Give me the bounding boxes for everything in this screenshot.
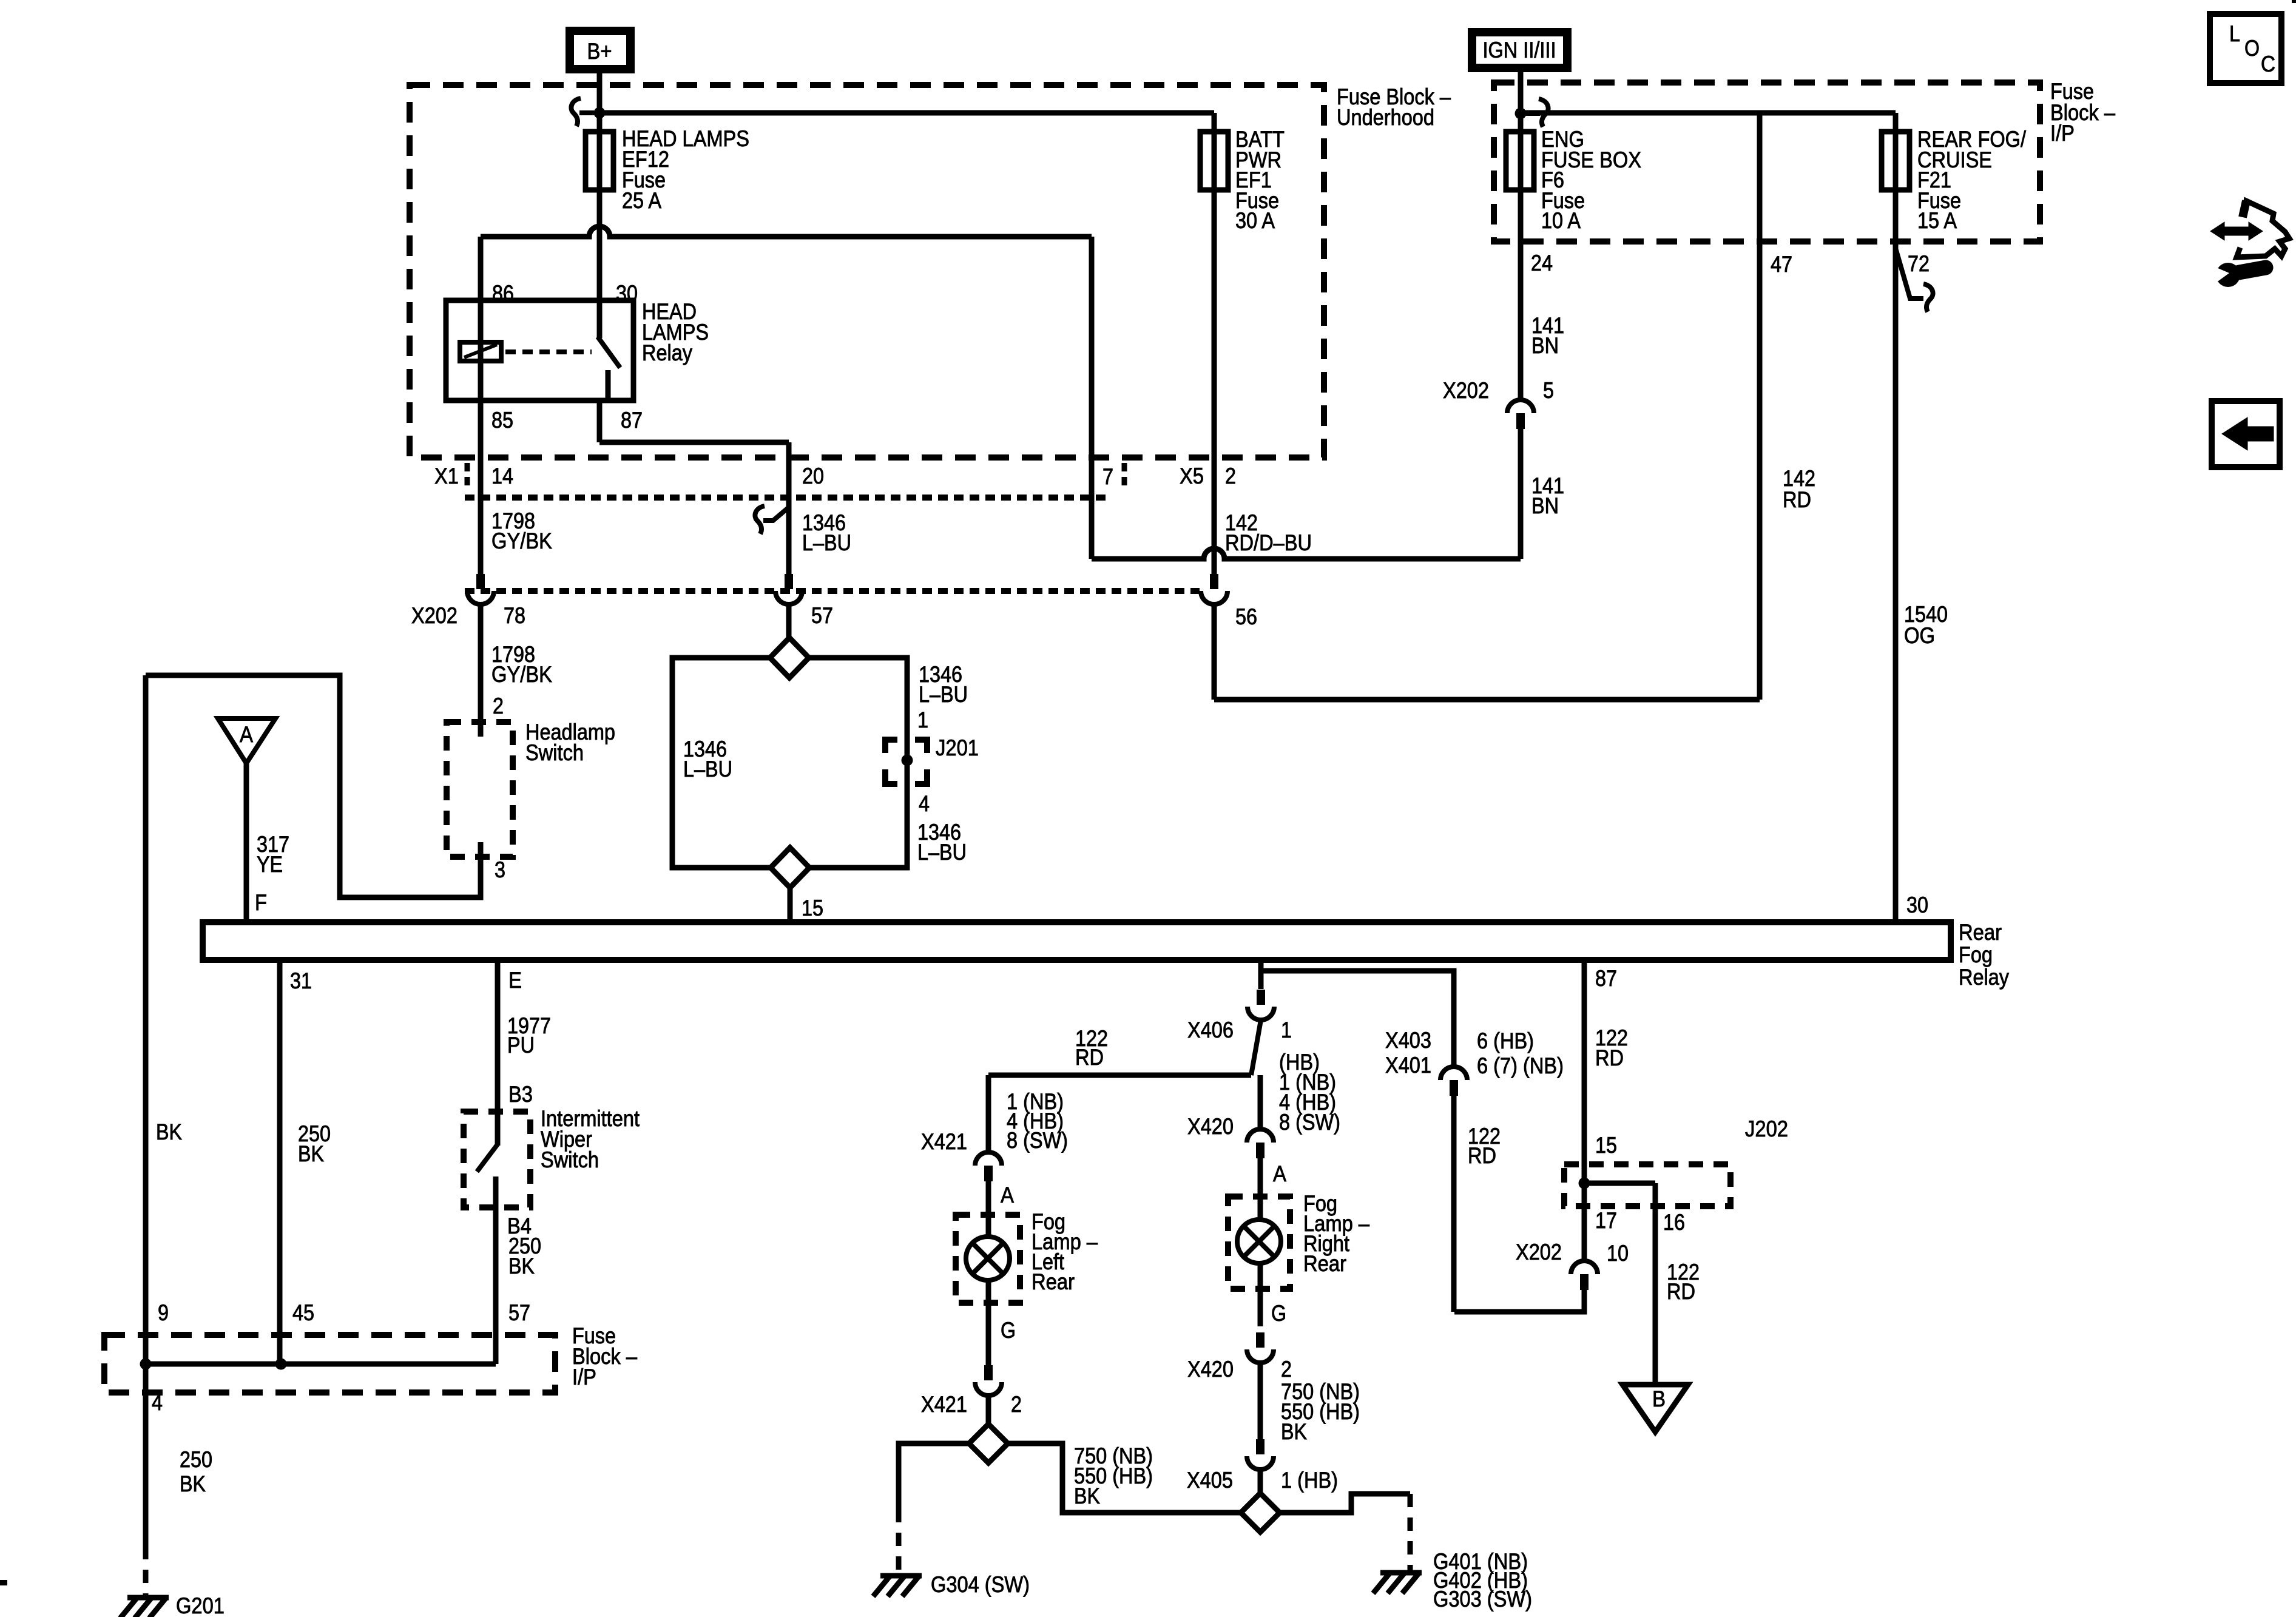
connector X421 pin 1 (975, 1152, 1002, 1166)
fuse F21 (REAR FOG/CRUISE 15A) (1882, 132, 1909, 190)
svg-text:X421: X421 (921, 1129, 967, 1154)
wire A to rear fog relay pin F (244, 763, 249, 922)
svg-text:B: B (1652, 1386, 1666, 1411)
wire J202 internal (1584, 1181, 1655, 1186)
junction J202 dashed box (1564, 1164, 1730, 1206)
svg-text:20: 20 (802, 464, 824, 488)
wire into left fog lamp (986, 1181, 991, 1238)
wire wiper switch lower (493, 1176, 499, 1364)
wire X202-10 to corner (1454, 1290, 1584, 1312)
svg-text:86: 86 (492, 281, 514, 306)
svg-text:PU: PU (507, 1033, 535, 1058)
svg-text:8 (SW): 8 (SW) (1279, 1110, 1340, 1135)
wire into right fog lamp (1258, 1158, 1263, 1220)
svg-text:Switch: Switch (525, 740, 584, 765)
dashed drop to G401 (1408, 1494, 1413, 1570)
connector X1 separator (465, 463, 470, 489)
wire right lamp column upper (1258, 1075, 1263, 1129)
svg-text:87: 87 (621, 408, 643, 433)
splice diamond lower (771, 848, 809, 888)
relay HEAD LAMPS box (446, 300, 633, 400)
connector X420 pin 2 (1256, 1332, 1264, 1348)
relay coil-switch dashed link (505, 349, 592, 354)
fuse block I/P dashed box (bottom left) (104, 1335, 555, 1393)
wire F21 top drop (1760, 110, 1896, 116)
svg-text:L–BU: L–BU (917, 840, 967, 865)
svg-text:YE: YE (257, 852, 283, 877)
wire 122 RD horizontal (988, 1073, 1251, 1078)
wire 141 BN horizontal with hop over pin30 wire (481, 226, 1092, 237)
svg-text:31: 31 (290, 968, 312, 993)
wire pin 87 horizontal to x1300 (599, 440, 789, 445)
service icon stub (2243, 201, 2246, 217)
svg-text:6 (7) (NB): 6 (7) (NB) (1477, 1053, 1564, 1078)
wire 250 BK to G201 (143, 1364, 149, 1546)
loop right branch (809, 658, 907, 868)
connector X421 pin 2 (984, 1365, 993, 1380)
connector X403/X401 (1440, 1067, 1467, 1080)
connector X5 separator (1122, 463, 1127, 489)
svg-text:OG: OG (1904, 623, 1935, 648)
service icon head outline (2237, 201, 2289, 257)
wire F6 to X202-5 (1518, 190, 1524, 400)
svg-text:L: L (2229, 21, 2240, 46)
svg-text:X403: X403 (1385, 1028, 1431, 1053)
svg-text:BK: BK (1281, 1419, 1307, 1444)
svg-text:57: 57 (811, 603, 833, 628)
wire 141 BN vertical x1799 (1089, 237, 1095, 559)
svg-text:1: 1 (1281, 1018, 1292, 1042)
wire bus stub to X406 (1258, 960, 1264, 989)
svg-text:J202: J202 (1745, 1116, 1788, 1141)
wire 1540 OG (F21 to relay pin 30) (1893, 190, 1899, 922)
bus junction line in I/P block (146, 1362, 496, 1367)
connector X202 pin 78 (476, 574, 485, 589)
svg-text:2: 2 (1011, 1392, 1022, 1417)
wire EF12 to relay pin 30 (597, 190, 603, 300)
svg-text:4: 4 (919, 791, 930, 816)
svg-text:BN: BN (1531, 493, 1559, 518)
junction J201 brackets (885, 740, 927, 784)
svg-text:87: 87 (1595, 966, 1617, 991)
fog lamp right dashed box (1228, 1197, 1290, 1289)
connector X202 pin 5 (1507, 400, 1534, 413)
ground G304 (873, 1576, 922, 1596)
svg-text:7: 7 (1102, 464, 1113, 489)
junction dot J201 (902, 755, 913, 766)
svg-text:X405: X405 (1187, 1468, 1233, 1493)
svg-text:A: A (240, 722, 253, 747)
svg-text:O: O (2244, 36, 2260, 61)
svg-text:Fog: Fog (1959, 942, 1993, 967)
svg-text:I/P: I/P (572, 1365, 596, 1389)
connector X405 pin 1 (1256, 1439, 1264, 1454)
hook below pin 72 (1896, 248, 1923, 299)
svg-text:B3: B3 (508, 1082, 533, 1107)
svg-text:G303 (SW): G303 (SW) (1433, 1587, 1532, 1612)
ground G401 (1373, 1573, 1422, 1593)
wire 141 BN riser to X202-5 (1518, 429, 1524, 559)
svg-text:GY/BK: GY/BK (491, 528, 552, 553)
headlamp switch stubs (478, 722, 484, 737)
wire X405 to splice (1258, 1470, 1263, 1493)
svg-text:J201: J201 (936, 735, 979, 760)
svg-text:72: 72 (1908, 251, 1930, 276)
svg-text:15 A: 15 A (1917, 208, 1957, 233)
svg-text:BN: BN (1531, 333, 1559, 358)
svg-text:2: 2 (493, 694, 504, 718)
page artifact mark bottom left (0, 1580, 7, 1585)
svg-text:5: 5 (1543, 378, 1554, 403)
wire below X202-56 (1212, 604, 1217, 700)
wire X420-2 to X405 (1258, 1363, 1263, 1440)
wire 142 RD/D-BU bottom horizontal (1214, 697, 1760, 703)
fog lamp left bulb (966, 1237, 1010, 1280)
junction dot J202 (1579, 1178, 1590, 1189)
connector X1 face (dotted row) (465, 495, 1110, 501)
splice diamond upper (770, 638, 809, 678)
back arrow box (2212, 401, 2280, 467)
svg-text:A: A (1273, 1161, 1286, 1186)
fuse block underhood dashed box (410, 85, 1324, 457)
svg-text:30 A: 30 A (1235, 208, 1275, 233)
svg-text:G201: G201 (176, 1593, 225, 1617)
svg-text:BK: BK (180, 1471, 206, 1496)
svg-text:G: G (1271, 1301, 1286, 1326)
svg-text:9: 9 (158, 1300, 169, 1325)
svg-text:X420: X420 (1187, 1114, 1234, 1139)
wire relay pin 85 down (478, 400, 484, 575)
connector X202 face (dotted row) (465, 588, 1200, 594)
svg-text:A: A (1001, 1183, 1014, 1207)
svg-text:X202: X202 (411, 603, 458, 628)
svg-text:8 (SW): 8 (SW) (1007, 1128, 1068, 1153)
svg-text:Relay: Relay (642, 340, 692, 365)
svg-text:Rear: Rear (1959, 920, 2002, 945)
wire B+ to junction (597, 73, 603, 113)
wire splice to relay pin 15 (788, 888, 793, 922)
svg-text:25 A: 25 A (622, 188, 661, 213)
svg-text:RD/D–BU: RD/D–BU (1225, 530, 1312, 555)
wire splice to G304 drop (899, 1443, 969, 1509)
svg-text:B+: B+ (587, 39, 612, 64)
wire pin 17 down (1582, 1183, 1587, 1261)
svg-text:24: 24 (1531, 251, 1553, 275)
svg-text:30: 30 (1906, 893, 1928, 917)
svg-text:G: G (1001, 1318, 1016, 1343)
svg-text:BK: BK (1074, 1484, 1100, 1508)
page artifact mark top right (2292, 0, 2296, 3)
svg-text:GY/BK: GY/BK (491, 662, 552, 687)
svg-text:X202: X202 (1516, 1240, 1562, 1264)
svg-text:RD: RD (1783, 487, 1811, 512)
fuse EF12 (HEAD LAMPS 25A) (586, 132, 613, 190)
connector X420 pin A (1247, 1129, 1274, 1143)
wire 141 BN horizontal lower with hop over X5 wire (1092, 549, 1521, 559)
wire pin 16 down to B (1653, 1183, 1658, 1385)
svg-text:45: 45 (292, 1300, 314, 1325)
svg-text:C: C (2261, 52, 2275, 76)
svg-text:I/P: I/P (2050, 121, 2075, 146)
fuse F6 (ENG FUSE BOX 10A) (1506, 132, 1534, 190)
svg-text:Rear: Rear (1303, 1251, 1346, 1276)
service icon double arrow (2210, 222, 2263, 240)
svg-text:17: 17 (1595, 1208, 1617, 1233)
svg-text:X1: X1 (434, 464, 459, 488)
svg-text:78: 78 (504, 603, 525, 628)
splice diamond left lamp (969, 1424, 1008, 1463)
loop left branch (672, 658, 771, 868)
fog lamp left dashed box (956, 1215, 1020, 1303)
junction dot at IGN feed (1515, 108, 1527, 120)
relay coil (478, 300, 484, 400)
wire 142 RD riser x2900 (1757, 113, 1763, 700)
connector X202 pin 57 (785, 574, 793, 589)
svg-text:RD: RD (1667, 1279, 1695, 1304)
hook below pin 20 (763, 507, 789, 521)
fog lamp right bulb (1237, 1220, 1281, 1263)
wire top link X406-X403 (1261, 971, 1454, 1067)
power feed B+ box (570, 31, 630, 69)
wire B+ junction to EF1 drop (599, 110, 1214, 116)
hook at IGN junction (1524, 111, 1540, 116)
svg-text:30: 30 (616, 281, 638, 306)
connector X202 pin 56 (1210, 574, 1218, 589)
diagonal X406 to 122RD line (1251, 1020, 1261, 1075)
wire below right lamp (1258, 1263, 1263, 1326)
fuse EF1 (BATT PWR 30A) (1200, 132, 1228, 190)
svg-text:BK: BK (156, 1119, 182, 1144)
svg-text:RD: RD (1075, 1045, 1104, 1070)
svg-text:Switch: Switch (541, 1147, 599, 1172)
wire EF12 feed (597, 113, 603, 132)
connector X406 pin 1 (1257, 990, 1265, 1005)
wire headlamp switch pin3 path (146, 675, 481, 897)
relay rear fog box (203, 922, 1951, 960)
svg-text:X406: X406 (1187, 1018, 1234, 1042)
svg-text:X202: X202 (1443, 378, 1489, 403)
svg-text:L–BU: L–BU (683, 757, 732, 781)
dashed drop to G304 (896, 1509, 902, 1573)
svg-text:Underhood: Underhood (1337, 105, 1434, 130)
svg-text:X420: X420 (1187, 1357, 1234, 1382)
svg-text:3: 3 (495, 857, 505, 882)
svg-text:6 (HB): 6 (HB) (1477, 1028, 1534, 1053)
svg-text:L–BU: L–BU (919, 682, 968, 707)
wire X5-2 down to X202-56 (1212, 190, 1217, 575)
svg-text:BK: BK (508, 1254, 535, 1278)
wire below left lamp (986, 1280, 991, 1365)
svg-text:RD: RD (1468, 1143, 1496, 1168)
svg-text:16: 16 (1663, 1210, 1685, 1235)
svg-text:14: 14 (491, 464, 513, 488)
svg-text:10 A: 10 A (1541, 208, 1581, 233)
svg-text:10: 10 (1607, 1241, 1629, 1266)
dashed drop to G201 (143, 1546, 149, 1596)
svg-text:BK: BK (298, 1141, 324, 1166)
power feed IGN II/III box (1472, 32, 1567, 68)
svg-text:Relay: Relay (1959, 965, 2009, 990)
wire BK left column (143, 675, 149, 1364)
wire X403 down (1451, 1096, 1457, 1312)
svg-text:F: F (255, 890, 267, 915)
loc box (2210, 14, 2281, 83)
service icon wrench (2216, 263, 2240, 287)
wire X202-57 to splice diamond (786, 604, 792, 638)
connector X202 pin 10 (1571, 1261, 1598, 1274)
wire X421-2 to splice (986, 1396, 991, 1425)
relay switch blade (597, 300, 603, 338)
wire to relay pin 86 (478, 237, 484, 300)
svg-text:85: 85 (491, 408, 513, 433)
svg-text:G304 (SW): G304 (SW) (931, 1572, 1030, 1597)
svg-text:IGN II/III: IGN II/III (1483, 38, 1556, 62)
junction dot I/P a (140, 1359, 152, 1370)
wire splice to X405 splice (1008, 1443, 1241, 1513)
wire pin 87 rf down (1582, 960, 1587, 1183)
svg-text:1 (HB): 1 (HB) (1281, 1468, 1338, 1493)
svg-text:4: 4 (152, 1390, 163, 1415)
wire pin E down (495, 960, 501, 1146)
wire X202-78 to headlamp switch (478, 604, 484, 722)
wire IGN junction to F21 (1521, 110, 1760, 116)
svg-text:2: 2 (1225, 464, 1236, 488)
svg-text:X421: X421 (921, 1392, 967, 1417)
wire IGN to junction (1518, 68, 1524, 132)
back arrow (2222, 417, 2274, 450)
wire x1300 down to X1 pin 20 (786, 442, 792, 575)
wire left lamp drop (986, 1075, 991, 1152)
junction dot at B+ feed (594, 107, 606, 119)
svg-text:L–BU: L–BU (802, 530, 851, 555)
wire EF1 drop (1212, 113, 1217, 132)
ground G201 (120, 1598, 169, 1617)
triangle A off-page (218, 718, 275, 763)
svg-text:E: E (508, 968, 522, 993)
svg-text:Rear: Rear (1032, 1269, 1075, 1294)
hook at B+ junction (579, 110, 594, 115)
svg-text:15: 15 (802, 896, 823, 920)
wire X405 splice to G401 drop (1280, 1494, 1410, 1513)
triangle B off-page (1622, 1385, 1688, 1432)
wiper switch dashed box (464, 1112, 530, 1207)
svg-text:X401: X401 (1385, 1053, 1431, 1078)
svg-text:15: 15 (1595, 1133, 1617, 1158)
junction dot I/P b (275, 1359, 287, 1370)
svg-text:57: 57 (508, 1300, 530, 1325)
svg-text:RD: RD (1595, 1045, 1624, 1070)
fuse block I/P dashed box (top right) (1494, 83, 2040, 241)
wiper switch blade (477, 1144, 498, 1172)
wire relay pin 87 down (597, 400, 603, 442)
svg-text:1: 1 (917, 707, 928, 732)
svg-text:47: 47 (1771, 252, 1792, 277)
svg-text:250: 250 (180, 1447, 212, 1472)
svg-text:2: 2 (1281, 1357, 1292, 1382)
svg-text:X5: X5 (1180, 464, 1204, 488)
splice diamond X405 (1241, 1493, 1280, 1532)
wire pin 31 down (277, 960, 283, 1364)
svg-text:56: 56 (1235, 604, 1257, 629)
headlamp switch dashed box (447, 722, 513, 857)
